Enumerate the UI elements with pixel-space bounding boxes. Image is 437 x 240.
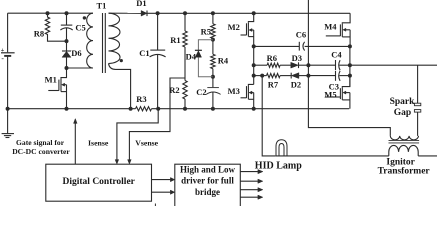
diode D2: [291, 73, 299, 79]
node junction D2 anode / ignitor line: [306, 74, 310, 78]
svg-text:-: -: [1, 54, 4, 63]
svg-text:bridge: bridge: [195, 187, 220, 197]
node junction left leg to R7 branch: [252, 74, 256, 78]
wire bottom rail (battery to R3): [8, 108, 136, 110]
svg-text:T1: T1: [97, 0, 107, 10]
transistor M2: [241, 13, 254, 46]
node junction D3 cathode / ignitor line: [306, 63, 310, 67]
node junction C6 wire at right leg: [348, 44, 352, 48]
transistor M5: [325, 76, 350, 109]
transformer T1 primary phase dot: [83, 16, 86, 19]
svg-text:C2: C2: [196, 87, 206, 97]
svg-text:M4: M4: [324, 22, 337, 32]
node junction C2 bottom on bottom rail: [211, 107, 215, 111]
High and Low driver box: [175, 164, 241, 208]
svg-text:R1: R1: [170, 35, 180, 45]
diode D3: [291, 62, 299, 68]
node junction M1 source on bottom rail: [65, 107, 69, 111]
wire Vsense tap (R1-R2 junction to controller): [129, 78, 185, 160]
transformer T1 core: [103, 13, 106, 73]
svg-text:D4: D4: [186, 51, 197, 61]
resistor R8: [45, 13, 66, 41]
wire bridge left leg midpoint column: [253, 46, 255, 84]
diode D1: [141, 11, 147, 17]
wire C6 branch (left leg to right leg): [254, 45, 350, 47]
arrow controller to driver 2: [152, 190, 175, 194]
svg-text:R7: R7: [268, 79, 279, 89]
node junction secondary return on bottom rail: [129, 107, 133, 111]
wire Isense tap (R3 to controller): [117, 109, 158, 161]
node junction right of R3 (Isense tap): [156, 107, 160, 111]
node junction bottom rail at battery: [6, 107, 10, 111]
resistor R4: [211, 40, 215, 77]
transformer T1 secondary phase dot: [120, 59, 123, 62]
svg-text:M2: M2: [228, 22, 240, 32]
resistor R1: [183, 13, 187, 80]
wire spark gap riser: [417, 65, 419, 103]
svg-text:R5: R5: [201, 27, 211, 37]
wire T1 secondary top lead: [109, 12, 142, 14]
wire T1 secondary bottom lead: [109, 64, 131, 109]
svg-text:C6: C6: [296, 30, 306, 40]
svg-text:Vsense: Vsense: [135, 139, 158, 148]
ignitor transformer core: [389, 140, 420, 143]
svg-text:Gap: Gap: [394, 108, 411, 118]
transistor M1: [48, 68, 66, 109]
svg-text:Transformer: Transformer: [378, 167, 431, 177]
arrow driver output 2: [240, 179, 263, 183]
node junction top of R1: [183, 11, 187, 15]
svg-text:D2: D2: [291, 79, 301, 89]
node junction R8-C5 bottom: [65, 39, 69, 43]
ground: [2, 109, 14, 138]
transistor M4: [326, 13, 350, 46]
node junction M3 source on bottom rail: [252, 107, 256, 111]
node junction lamp tap on R7 branch: [260, 74, 264, 78]
spark gap: [414, 103, 420, 136]
HID lamp: [276, 140, 287, 156]
node junction top of C1: [156, 11, 160, 15]
wire gate signal (controller to M1 gate): [74, 123, 76, 165]
capacitor C6: [299, 42, 304, 51]
svg-text:R8: R8: [34, 28, 44, 38]
svg-text:Gate signal for: Gate signal for: [16, 138, 65, 147]
wire bottom rail (R3 to M3/M5): [152, 108, 350, 110]
node junction R2 bottom on bottom rail: [183, 107, 187, 111]
wire lamp baseline to ignitor: [275, 155, 389, 157]
svg-text:R4: R4: [218, 56, 229, 66]
svg-text:D1: D1: [136, 0, 146, 8]
svg-text:D3: D3: [292, 53, 302, 63]
arrow Vsense into controller: [128, 160, 132, 164]
arrow controller to driver 1: [152, 178, 175, 182]
svg-text:R2: R2: [169, 85, 179, 95]
ignitor transformer primary winding: [390, 136, 418, 140]
svg-text:C5: C5: [75, 22, 85, 32]
wire top rail (D1 to bridge): [147, 12, 350, 14]
label cropped tick mark: [154, 204, 156, 207]
wire ignitor line (from top edge to ignitor primary): [308, 0, 390, 136]
Digital Controller box: [46, 164, 152, 201]
wire ignitor secondary output (to right edge): [418, 155, 437, 157]
transformer T1 primary winding: [87, 13, 93, 68]
svg-text:R6: R6: [267, 53, 277, 63]
resistor R2: [183, 81, 187, 109]
battery (DC input source): [1, 13, 15, 109]
wire bridge right leg midpoint column: [349, 46, 351, 86]
diode D6: [62, 41, 71, 68]
svg-text:driver for full: driver for full: [181, 176, 234, 186]
capacitor C3: [336, 71, 341, 81]
arrow driver output 1: [240, 170, 263, 174]
ignitor transformer secondary winding: [389, 145, 418, 156]
capacitor C4: [336, 60, 341, 70]
svg-text:HID Lamp: HID Lamp: [255, 161, 302, 172]
resistor R6: [267, 63, 280, 67]
diode D4: [195, 40, 213, 77]
node junction top of C5: [65, 11, 69, 15]
svg-text:M5: M5: [324, 89, 336, 99]
wire C4 branch (to right leg and spark gap): [308, 64, 437, 66]
capacitor C1: [150, 13, 166, 108]
transistor M3: [241, 84, 254, 108]
arrow gate signal up: [74, 119, 78, 124]
svg-text:Digital Controller: Digital Controller: [63, 177, 136, 187]
svg-text:DC-DC converter: DC-DC converter: [12, 147, 70, 156]
node junction R5-R4 (D4 cathode): [211, 38, 215, 42]
wire lamp left lead: [262, 76, 275, 156]
svg-text:C4: C4: [331, 50, 342, 60]
wire C3 branch: [308, 75, 350, 77]
node junction top of R5: [211, 11, 215, 15]
resistor R3: [136, 107, 152, 111]
svg-text:High and Low: High and Low: [180, 165, 236, 175]
svg-text:M3: M3: [228, 86, 240, 96]
svg-text:C1: C1: [139, 48, 149, 58]
wire R7-D2 branch: [254, 75, 309, 77]
svg-text:Isense: Isense: [88, 139, 109, 148]
svg-text:M1: M1: [45, 75, 57, 85]
resistor R5: [211, 13, 215, 39]
wire R6-D3 branch: [254, 64, 309, 66]
transformer T1 secondary winding: [109, 13, 121, 63]
node junction D6-T1-M1 drain: [65, 66, 69, 70]
node junction C3 wire at right leg: [348, 74, 352, 78]
arrow driver output 4: [240, 195, 263, 199]
arrow driver output 3: [240, 188, 263, 192]
svg-text:Spark: Spark: [390, 97, 416, 107]
arrow Isense into controller: [115, 160, 119, 164]
capacitor C5: [60, 13, 72, 41]
wire top rail (left segment, battery to T1 primary): [8, 12, 93, 14]
node junction M2 source / C6 wire: [252, 44, 256, 48]
wire T1 primary bottom lead: [67, 67, 94, 69]
resistor R7: [267, 74, 281, 78]
node junction top of R8: [46, 11, 50, 15]
svg-text:D6: D6: [71, 48, 81, 58]
capacitor C2: [206, 77, 220, 109]
node junction R4-C2 (D4 anode): [211, 75, 215, 79]
node junction M2 drain on top rail: [252, 11, 256, 15]
svg-text:R3: R3: [136, 94, 146, 104]
node junction left leg to R6 branch: [252, 63, 256, 67]
node junction C4 wire at right leg: [348, 63, 352, 67]
